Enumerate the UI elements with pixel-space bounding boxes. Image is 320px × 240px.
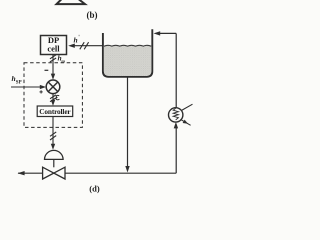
svg-text:(b): (b) bbox=[87, 10, 98, 20]
svg-text:Controller: Controller bbox=[39, 107, 71, 116]
svg-text:cell: cell bbox=[47, 44, 60, 54]
svg-text:SP: SP bbox=[16, 80, 22, 85]
svg-text:(d): (d) bbox=[89, 183, 100, 193]
svg-text:h: h bbox=[74, 35, 78, 44]
